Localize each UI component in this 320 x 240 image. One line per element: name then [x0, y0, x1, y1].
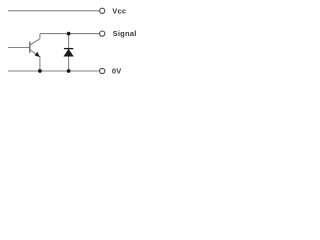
base wire — [8, 47, 30, 49]
svg-text:0V: 0V — [112, 66, 122, 75]
svg-text:Signal: Signal — [113, 29, 137, 38]
terminal circle Signal — [100, 31, 105, 36]
emitter lead — [30, 50, 40, 71]
transistor Q1 (NPN open-collector) — [8, 34, 40, 71]
wire Signal line — [40, 33, 100, 35]
terminal circle 0V — [100, 68, 105, 73]
cathode bar — [64, 48, 73, 50]
diode wire — [68, 34, 70, 71]
svg-text:Vcc: Vcc — [112, 6, 126, 15]
diode triangle — [64, 50, 73, 57]
junction dot diode/Signal — [67, 32, 71, 36]
terminal circle Vcc — [100, 8, 105, 13]
emitter arrowhead — [35, 52, 40, 57]
collector lead — [30, 34, 40, 45]
junction dot emitter/0V — [38, 69, 42, 73]
junction dot diode/0V — [67, 69, 71, 73]
wire Vcc rail — [8, 10, 100, 12]
base bar — [29, 42, 31, 53]
wire 0V rail — [8, 70, 100, 72]
diode D1 (clamp diode, cathode to Signal) — [64, 34, 73, 71]
